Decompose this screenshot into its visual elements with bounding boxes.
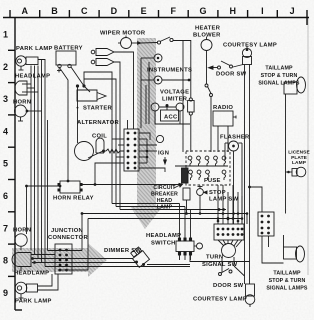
svg-text:4: 4: [3, 126, 8, 136]
svg-text:JUNCTION: JUNCTION: [51, 228, 83, 234]
svg-text:RADIO: RADIO: [213, 105, 233, 111]
circuit breaker: [182, 168, 189, 183]
wire relay riser: [95, 163, 124, 185]
svg-text:LIMITER: LIMITER: [162, 97, 188, 103]
flasher: [229, 141, 239, 151]
svg-text:B: B: [51, 6, 58, 16]
svg-text:HEADLAMP: HEADLAMP: [14, 271, 49, 277]
svg-text:I: I: [261, 6, 264, 16]
wire: [27, 83, 31, 85]
wire relay out: [80, 184, 181, 186]
svg-text:VOLTAGE: VOLTAGE: [160, 90, 189, 96]
horn relay: [60, 181, 80, 193]
svg-text:A: A: [22, 6, 29, 16]
svg-text:BREAKER: BREAKER: [151, 192, 178, 198]
ts diagonals: [218, 240, 224, 246]
svg-text:BATTERY: BATTERY: [54, 46, 83, 52]
svg-text:SIGNAL LAMPS: SIGNAL LAMPS: [266, 286, 307, 292]
wire riser park feed: [87, 219, 89, 271]
instruments rail: [140, 58, 142, 128]
junction connector right: [258, 212, 274, 236]
resistance wire: [106, 149, 124, 153]
halftone band horizontal: [12, 243, 107, 277]
junction left dots: [59, 249, 68, 272]
connector pin dots main: [127, 132, 149, 170]
wire battery to starter: [71, 67, 84, 86]
connector out right: [139, 133, 150, 140]
wire junction row8 lower link: [58, 269, 88, 271]
wire: [27, 110, 42, 112]
wire riser bus-to-junction: [81, 214, 83, 251]
wire main bus row7: [82, 213, 247, 215]
horn (top): [15, 105, 27, 117]
wire to headlamp switch pin 1: [112, 203, 180, 205]
wire bus feed to turn signal connector: [120, 209, 226, 211]
svg-text:HEATER: HEATER: [195, 26, 221, 32]
svg-text:LAMP: LAMP: [292, 160, 307, 166]
starter: [77, 90, 97, 101]
license lamp: [296, 167, 306, 177]
svg-text:9: 9: [3, 288, 8, 298]
halftone band vertical: [130, 38, 163, 229]
wire junction row8 link: [48, 250, 83, 252]
svg-text:STARTER: STARTER: [83, 106, 113, 112]
svg-text:LAMP SW: LAMP SW: [209, 197, 239, 203]
svg-text:DOOR SW: DOOR SW: [216, 72, 247, 78]
headlamp switch: [176, 241, 194, 252]
wire starter loop: [84, 72, 112, 204]
svg-text:STOP: STOP: [209, 190, 226, 196]
voltage limiter gauges: [151, 103, 159, 111]
svg-text:WIPER MOTOR: WIPER MOTOR: [100, 31, 146, 37]
battery: [56, 51, 76, 65]
svg-text:HEADLAMP: HEADLAMP: [15, 74, 50, 80]
junction right dots: [261, 215, 270, 235]
courtesy lamp bottom: [246, 284, 255, 296]
grid ruler top: [3, 10, 309, 25]
turn signal connector: [214, 224, 244, 240]
wire starter bus: [84, 79, 116, 207]
wiper switch: [132, 42, 138, 44]
svg-text:5: 5: [3, 159, 8, 169]
wire battery down: [59, 67, 68, 181]
wires row8 bundle: [31, 254, 55, 256]
svg-text:STOP & TURN: STOP & TURN: [269, 278, 306, 284]
svg-text:PLATE: PLATE: [291, 155, 308, 161]
wire starter to alternator: [77, 86, 79, 143]
wire: [27, 91, 38, 93]
svg-text:TURN: TURN: [206, 255, 223, 261]
taillamp top: [284, 82, 297, 94]
junction connector left box: [55, 244, 72, 274]
wire plug2: [114, 62, 120, 210]
cb arrow: [174, 185, 180, 188]
svg-text:SIGNAL LAMPS: SIGNAL LAMPS: [258, 81, 299, 87]
wire park9 b: [38, 274, 59, 290]
svg-text:DOOR SW: DOOR SW: [213, 283, 244, 289]
alternator: [75, 142, 94, 161]
svg-text:BLOWER: BLOWER: [193, 33, 221, 39]
svg-text:+: +: [76, 106, 79, 112]
svg-text:COURTESY LAMP: COURTESY LAMP: [223, 43, 277, 49]
wire turn signal sw bracket: [190, 255, 250, 262]
fuse clips: [188, 156, 226, 180]
connector feed lines left: [112, 138, 124, 140]
svg-text:1: 1: [3, 30, 8, 40]
svg-text:IGN: IGN: [158, 151, 169, 157]
svg-text:LAMP: LAMP: [157, 205, 173, 211]
svg-text:CIRCUIT: CIRCUIT: [153, 185, 176, 191]
stop lamp sw: [197, 189, 204, 196]
radio: [213, 111, 233, 126]
svg-text:SIGNAL SW: SIGNAL SW: [202, 262, 238, 268]
svg-text:DIMMER SW: DIMMER SW: [104, 248, 141, 254]
wiper motor: [121, 38, 132, 49]
svg-text:J: J: [290, 6, 295, 16]
door sw bottom: [219, 273, 222, 276]
svg-text:HORN: HORN: [13, 228, 31, 234]
horn row7: [15, 234, 27, 246]
svg-text:TAILLAMP: TAILLAMP: [265, 66, 293, 72]
headlamp (top): [15, 81, 27, 95]
svg-text:ALTERNATOR: ALTERNATOR: [77, 120, 119, 126]
ign key: [156, 135, 163, 142]
heater blower: [201, 40, 212, 51]
wire park9 a: [38, 274, 53, 286]
coil: [96, 138, 104, 153]
wire plug1: [114, 52, 134, 129]
wire relay feed: [27, 185, 61, 187]
left vertical risers row5-8: [47, 120, 49, 251]
svg-text:STOP & TURN: STOP & TURN: [261, 73, 298, 79]
wire to headlamp switch pin 2: [116, 206, 185, 208]
svg-text:FLASHER: FLASHER: [220, 135, 250, 141]
wire: [38, 60, 45, 267]
fuse acc: [188, 101, 195, 113]
svg-text:COIL: COIL: [92, 134, 107, 140]
long wires mid right: [241, 219, 243, 225]
wire horn row7 riser: [26, 186, 28, 234]
taillamp bottom: [284, 247, 297, 259]
svg-text:HEAD: HEAD: [157, 198, 172, 204]
svg-text:LICENSE: LICENSE: [288, 150, 310, 156]
svg-text:FUSE: FUSE: [204, 178, 221, 184]
horn relay pins: [58, 183, 61, 186]
wire heater down + switch: [206, 51, 208, 85]
svg-text:COURTESY LAMP: COURTESY LAMP: [193, 297, 247, 303]
svg-text:G: G: [199, 6, 206, 16]
main connector: [124, 129, 139, 171]
svg-text:8: 8: [3, 256, 8, 266]
svg-text:D: D: [111, 6, 118, 16]
svg-text:C: C: [81, 6, 88, 16]
wire courtesy down long: [249, 65, 251, 285]
door sw top: [233, 65, 243, 68]
ground park lamp top: [20, 66, 22, 70]
right verticals: [250, 187, 263, 212]
svg-text:TAILLAMP: TAILLAMP: [273, 271, 301, 277]
svg-text:CONNECTOR: CONNECTOR: [48, 235, 88, 241]
wiper plugs: [96, 49, 114, 56]
svg-text:7: 7: [3, 223, 8, 233]
svg-text:HORN RELAY: HORN RELAY: [53, 196, 94, 202]
svg-text:ACC: ACC: [164, 115, 178, 121]
wire to F: [173, 41, 191, 99]
grid ruler left: [8, 18, 22, 311]
svg-text:3: 3: [3, 94, 8, 104]
svg-text:PARK LAMP: PARK LAMP: [16, 46, 53, 52]
courtesy lamp top: [242, 48, 251, 57]
svg-text:PARK LAMP: PARK LAMP: [15, 299, 52, 305]
park lamp row9: [15, 282, 27, 294]
svg-text:E: E: [141, 6, 147, 16]
ts connector dots: [217, 218, 244, 236]
headlamp row8: [12, 253, 31, 267]
svg-text:F: F: [171, 6, 177, 16]
svg-text:HEADLAMP: HEADLAMP: [146, 233, 181, 239]
fuse panel dashed: [186, 151, 230, 185]
svg-text:SWITCH: SWITCH: [151, 241, 176, 247]
svg-text:INSTRUMENTS: INSTRUMENTS: [147, 68, 192, 74]
junction dots: [25, 185, 28, 188]
svg-text:HORN: HORN: [13, 100, 31, 106]
dimmer sw: [129, 246, 149, 267]
park lamp (top): [16, 56, 26, 66]
wire: [27, 87, 35, 89]
svg-text:6: 6: [3, 191, 8, 201]
svg-text:H: H: [229, 6, 236, 16]
wire dimmer out: [147, 264, 190, 266]
svg-text:2: 2: [3, 62, 8, 72]
